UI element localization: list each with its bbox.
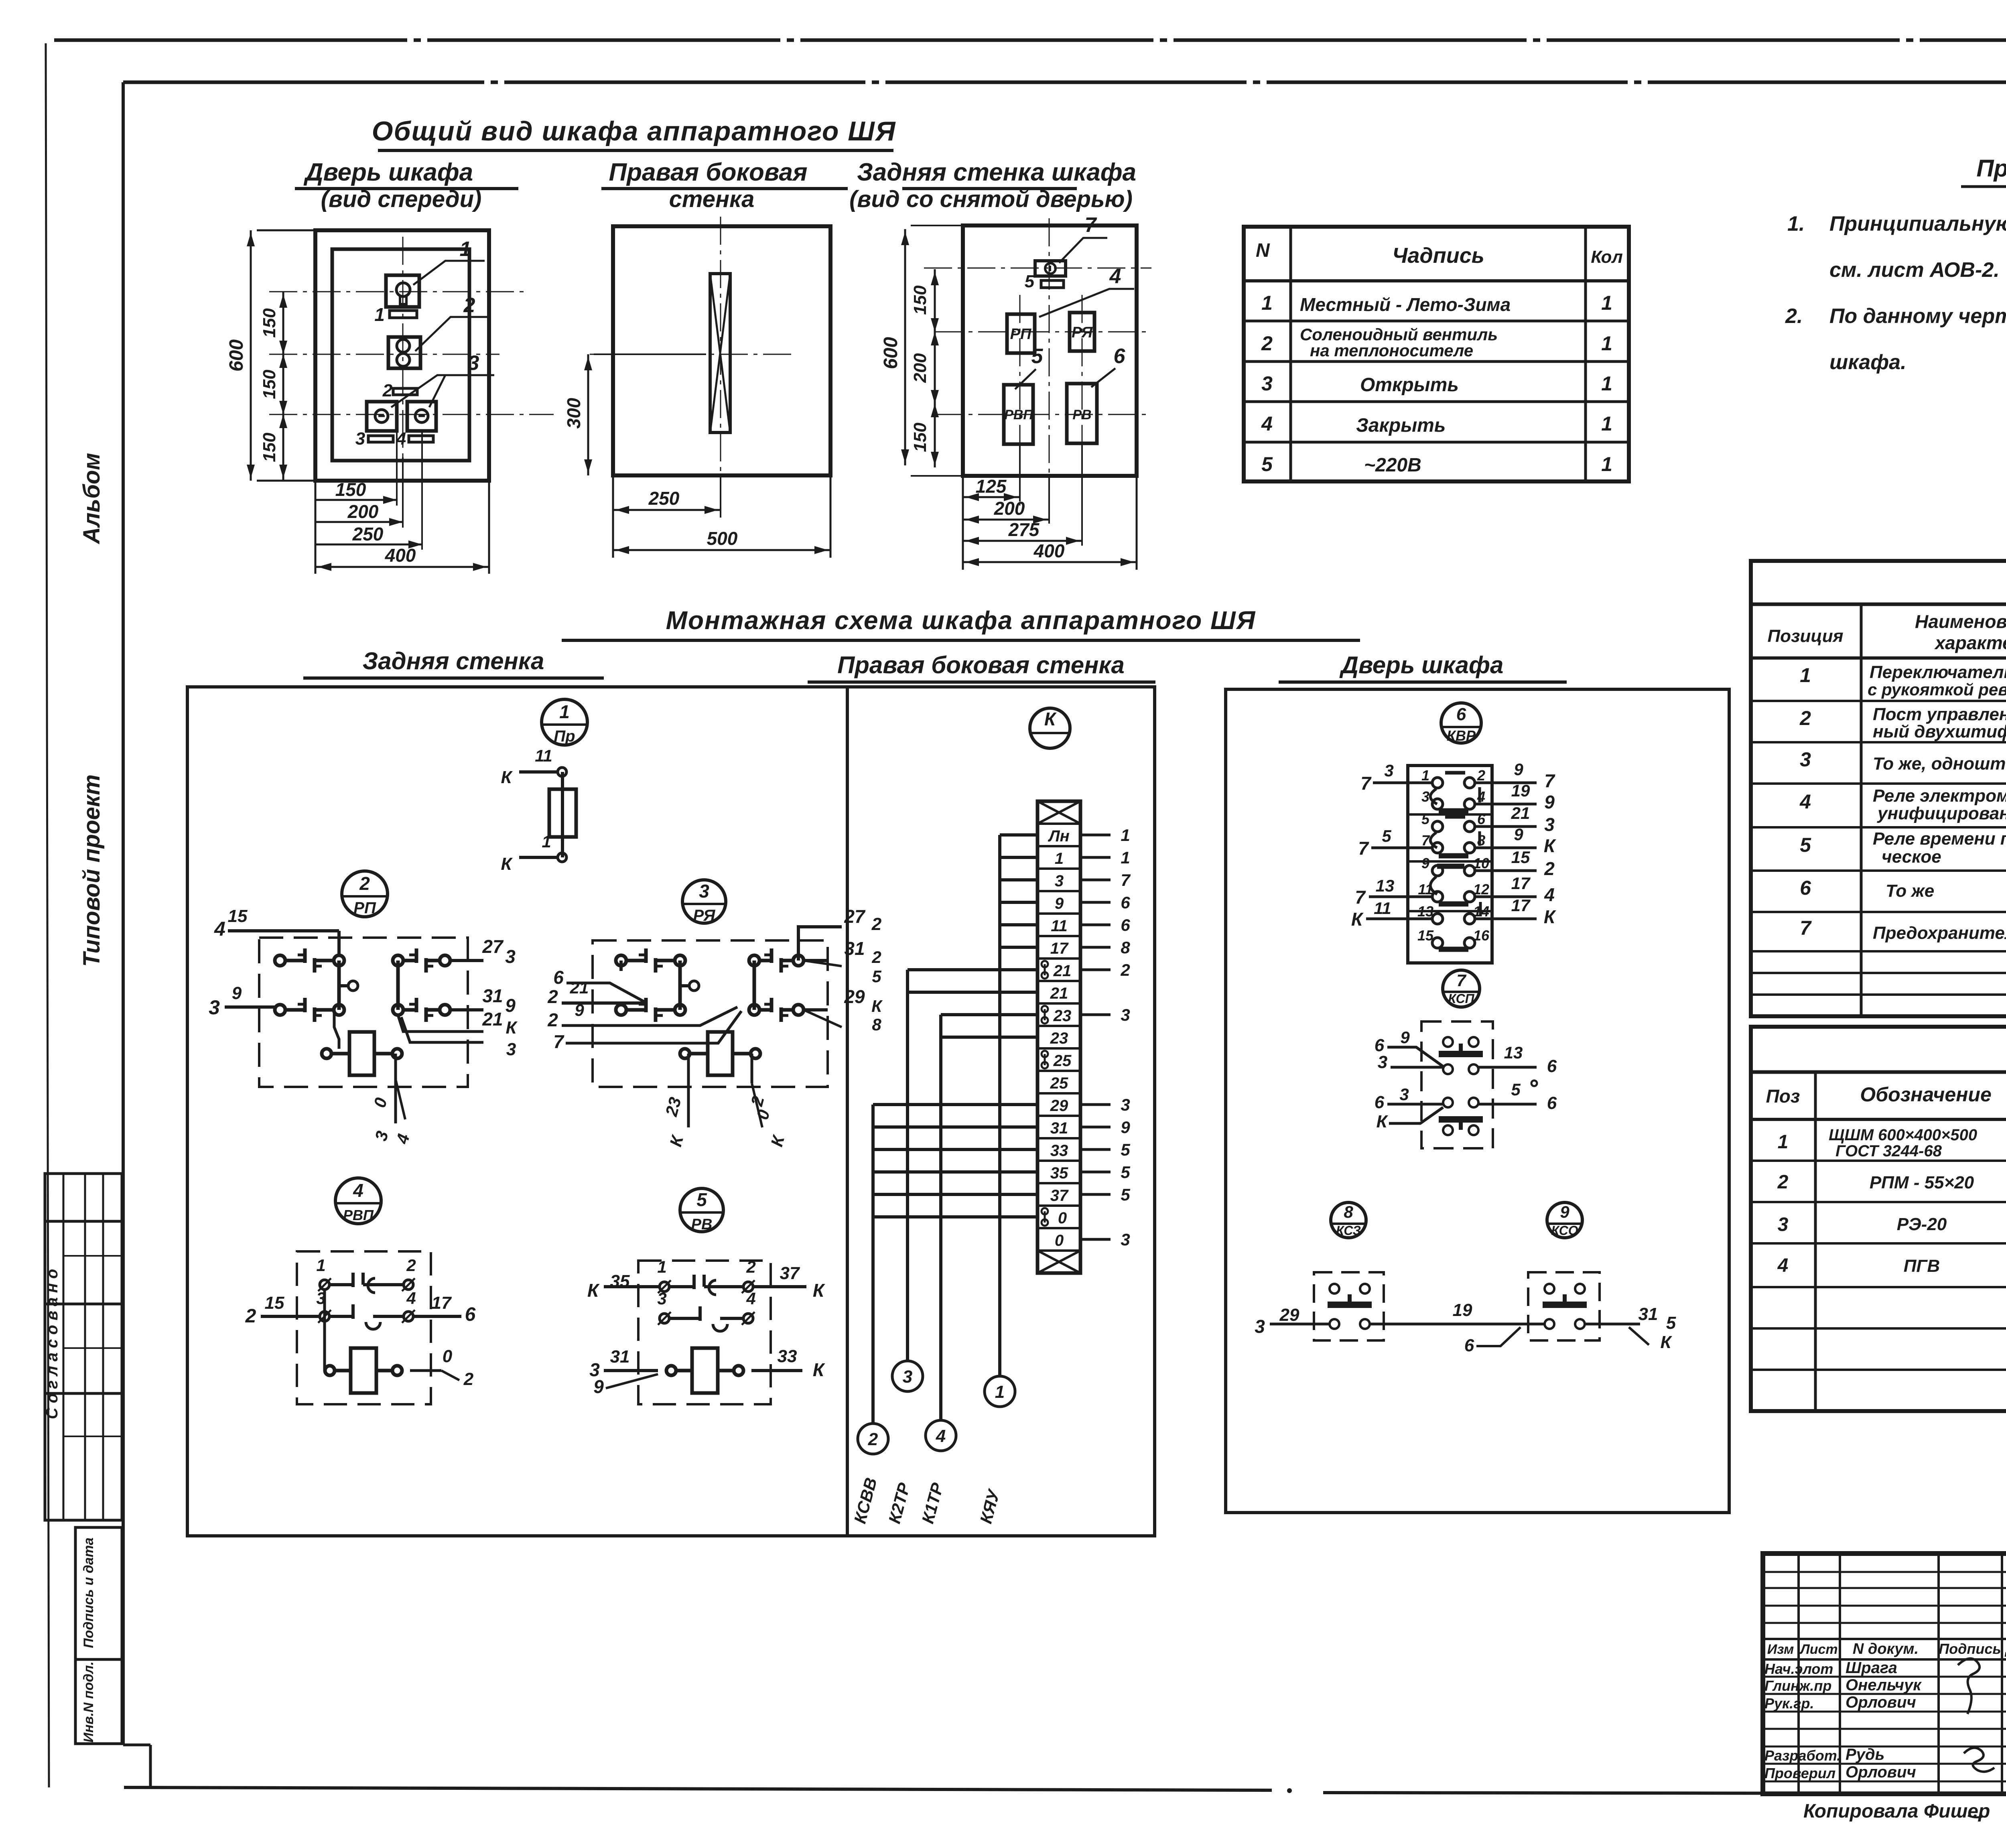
svg-text:9: 9 — [505, 995, 516, 1016]
svg-text:35: 35 — [1050, 1164, 1068, 1182]
svg-text:КСО: КСО — [1551, 1223, 1578, 1238]
button КСП unit B — [1439, 1098, 1483, 1135]
svg-text:1: 1 — [559, 701, 570, 722]
svg-text:характеристика: характеристика — [1934, 632, 2006, 653]
position circle 4 РВП — [335, 1178, 381, 1224]
svg-text:1: 1 — [1261, 292, 1273, 314]
montage box door — [1226, 689, 1729, 1513]
svg-text:6: 6 — [1114, 345, 1126, 368]
svg-text:1: 1 — [1121, 848, 1130, 867]
specification table Спецификация — [1751, 1027, 2006, 1411]
position circle 5 РВ — [680, 1188, 723, 1233]
montage title Монтажная схема шкафа аппаратного ША — [562, 606, 1360, 640]
svg-text:4: 4 — [1261, 412, 1273, 435]
svg-text:6: 6 — [1456, 705, 1466, 724]
svg-text:РВ: РВ — [691, 1216, 713, 1233]
svg-text:4: 4 — [746, 1289, 755, 1308]
svg-text:21: 21 — [1050, 985, 1068, 1002]
svg-text:5: 5 — [1121, 1163, 1130, 1182]
svg-text:РВП: РВП — [1004, 407, 1033, 422]
svg-text:3: 3 — [355, 429, 365, 449]
svg-text:Правая боковая стенка: Правая боковая стенка — [837, 652, 1125, 678]
svg-text:2.: 2. — [1785, 305, 1803, 328]
svg-text:8: 8 — [1121, 938, 1130, 957]
subtitle Дверь шкафа (вид спереди) — [295, 158, 518, 212]
time relay РВ coil — [666, 1348, 743, 1393]
svg-text:2: 2 — [463, 1369, 474, 1389]
svg-text:Принципиальную схему авт: Принципиальную схему автоматизации — [1829, 212, 2006, 236]
time relay РВ contact 1-2 — [657, 1257, 755, 1295]
svg-text:4: 4 — [1544, 884, 1555, 905]
position circle 7 КСП — [1443, 970, 1480, 1007]
left margin label Типовой проект — [79, 774, 105, 967]
svg-text:К: К — [1544, 906, 1556, 927]
svg-text:Монтажная схема шкафа: Монтажная схема шкафа аппаратного ШЯ — [666, 606, 1256, 635]
relay РП enclosure dashed — [259, 938, 468, 1087]
montage subtitle Правая боковая стенка — [808, 652, 1155, 682]
svg-text:1: 1 — [374, 304, 385, 325]
КВР external wires left — [1351, 761, 1433, 930]
svg-text:6: 6 — [1800, 877, 1811, 899]
svg-text:7: 7 — [1421, 832, 1430, 849]
svg-text:Рук.гр.: Рук.гр. — [1764, 1695, 1814, 1712]
terminal strip К right stubs — [1080, 826, 1131, 1249]
montage subtitle Задняя стенка — [303, 648, 604, 678]
svg-text:Дверь шкафа: Дверь шкафа — [1339, 652, 1504, 678]
svg-text:2: 2 — [1544, 858, 1555, 879]
svg-text:250: 250 — [648, 488, 680, 509]
svg-text:3: 3 — [1384, 761, 1393, 780]
svg-text:400: 400 — [385, 545, 416, 566]
svg-text:125: 125 — [976, 476, 1007, 497]
fuse Пр leads — [501, 746, 566, 874]
svg-text:5: 5 — [1800, 834, 1811, 856]
left margin label Альбом — [79, 453, 105, 545]
svg-text:1: 1 — [316, 1256, 325, 1275]
wire РП output 21-К and 3 — [398, 1009, 518, 1059]
svg-text:9: 9 — [593, 1376, 604, 1397]
side view dimension 300 — [563, 354, 706, 475]
КВР external wires right — [1475, 760, 1556, 927]
svg-text:23: 23 — [1053, 1007, 1072, 1025]
back view wall outline — [963, 225, 1137, 476]
svg-text:275: 275 — [1008, 519, 1040, 540]
wire РП coil left link — [334, 1007, 339, 1049]
svg-text:5: 5 — [1261, 453, 1273, 475]
svg-text:3: 3 — [1255, 1316, 1265, 1337]
svg-text:16: 16 — [1473, 927, 1490, 944]
note 2 — [1785, 305, 2006, 374]
svg-text:3: 3 — [1544, 814, 1555, 835]
wire РЯ coil output 2 0 К — [747, 1054, 788, 1149]
relay РП coil — [322, 1032, 402, 1075]
svg-text:1.: 1. — [1787, 212, 1805, 236]
wire РВ coil output 33-К — [751, 1346, 825, 1380]
svg-text:6: 6 — [465, 1304, 476, 1325]
back view dimension 600 — [880, 225, 965, 476]
svg-text:29: 29 — [844, 986, 865, 1007]
wire РВ coil feed 3-31 9 — [589, 1347, 658, 1397]
svg-text:11: 11 — [1051, 917, 1068, 935]
svg-text:19: 19 — [1453, 1300, 1472, 1320]
svg-text:29: 29 — [1279, 1305, 1299, 1325]
svg-text:К: К — [871, 997, 883, 1015]
wire РЯ output 31-2-5 — [804, 938, 881, 986]
svg-text:25: 25 — [1050, 1074, 1068, 1092]
svg-text:1: 1 — [995, 1382, 1005, 1402]
buttons КСП enclosure dashed — [1421, 1021, 1493, 1148]
svg-text:1: 1 — [1778, 1131, 1789, 1153]
svg-text:9: 9 — [232, 983, 242, 1003]
svg-text:5: 5 — [1421, 811, 1430, 827]
svg-text:5: 5 — [1666, 1313, 1676, 1333]
relay РП contact group B — [393, 948, 450, 1022]
svg-text:0: 0 — [1055, 1232, 1064, 1249]
svg-text:К: К — [1044, 709, 1057, 729]
svg-text:12: 12 — [1473, 881, 1489, 898]
left margin stamp Согласовано — [43, 1174, 122, 1520]
time relay РВ contact 3-4 — [657, 1289, 755, 1331]
svg-text:400: 400 — [1033, 540, 1065, 561]
wire РВ feed К-35 and out 37-К — [587, 1263, 825, 1301]
svg-text:С о г л а с о в а н о: С о г л а с о в а н о — [43, 1269, 61, 1420]
svg-text:15: 15 — [265, 1293, 284, 1313]
svg-text:2: 2 — [359, 873, 370, 894]
front view centerlines — [269, 237, 554, 457]
subtitle Правая боковая стенка — [601, 158, 848, 212]
svg-text:Альбом: Альбом — [79, 453, 105, 545]
svg-text:2: 2 — [1777, 1172, 1789, 1193]
note 1 — [1787, 212, 2006, 282]
svg-text:27: 27 — [844, 906, 866, 927]
svg-text:13: 13 — [1376, 876, 1395, 895]
left margin box Подпись и дата — [75, 1527, 122, 1659]
svg-text:К: К — [1660, 1332, 1672, 1352]
svg-text:3: 3 — [468, 351, 479, 375]
svg-text:КСП: КСП — [1448, 991, 1474, 1006]
svg-text:(вид спереди): (вид спереди) — [321, 186, 482, 212]
svg-text:600: 600 — [226, 339, 247, 372]
front view dimension 600 — [226, 230, 317, 481]
svg-text:Глинж.пр: Глинж.пр — [1764, 1677, 1831, 1694]
wire РП output 27-3 — [450, 936, 516, 967]
time relay РВП contact 1-2 — [316, 1256, 416, 1293]
cam switch КВР contacts — [1417, 767, 1490, 949]
svg-text:31: 31 — [482, 985, 503, 1006]
svg-text:Кол: Кол — [1591, 247, 1623, 267]
svg-text:3: 3 — [505, 946, 516, 967]
svg-text:8: 8 — [1344, 1202, 1353, 1221]
svg-text:3: 3 — [657, 1289, 666, 1308]
svg-text:Общий вид шкафа аппара: Общий вид шкафа аппаратного ШЯ — [372, 116, 896, 146]
svg-text:6: 6 — [1121, 893, 1130, 912]
svg-text:150: 150 — [260, 433, 279, 462]
svg-text:ЩШМ 600×400×500: ЩШМ 600×400×500 — [1829, 1126, 1977, 1144]
back view relay РВП — [1004, 385, 1033, 444]
svg-text:То же: То же — [1886, 881, 1934, 901]
leader to position 5 — [1015, 345, 1044, 389]
svg-text:2: 2 — [871, 914, 882, 934]
terminal strip К — [1038, 801, 1080, 1273]
svg-text:унифицированное: унифицированное — [1877, 804, 2006, 823]
svg-text:10: 10 — [1473, 855, 1489, 871]
svg-text:4: 4 — [406, 1289, 416, 1308]
svg-text:17: 17 — [1511, 896, 1531, 915]
svg-text:7: 7 — [1358, 838, 1369, 859]
svg-text:Примечание: Примечание — [1976, 155, 2006, 182]
front view label frame 1 — [374, 304, 417, 325]
position circle 8 КСЗ — [1331, 1202, 1366, 1238]
back view bottom dimensions — [963, 444, 1137, 570]
side view centerlines — [590, 217, 796, 485]
svg-text:2: 2 — [1261, 332, 1273, 355]
left margin box Инв.N подл — [75, 1659, 122, 1744]
front view button 2 ПКЕ — [388, 337, 420, 368]
back view centerlines — [924, 218, 1151, 542]
cam switch КВР body — [1408, 766, 1492, 963]
labels table Надпись-Кол — [1244, 227, 1629, 481]
svg-text:1: 1 — [1055, 850, 1064, 867]
svg-text:1: 1 — [657, 1257, 666, 1276]
relay РЯ contact group A — [616, 948, 699, 1022]
svg-text:21: 21 — [1053, 962, 1072, 980]
svg-text:К: К — [1376, 1112, 1388, 1131]
relay РЯ contact group B — [749, 948, 804, 1022]
wire РЯ coil output 23 К — [662, 1054, 688, 1149]
svg-text:2: 2 — [1120, 961, 1130, 979]
back view relay РВ — [1067, 384, 1097, 443]
montage subtitle Дверь шкафа — [1279, 652, 1567, 682]
svg-text:Инв.N подл.: Инв.N подл. — [81, 1661, 96, 1742]
svg-text:3: 3 — [1055, 872, 1064, 890]
svg-text:0: 0 — [443, 1346, 453, 1366]
leader to position 6 — [1091, 345, 1126, 387]
front view door outline — [315, 230, 489, 481]
svg-text:6: 6 — [1547, 1056, 1557, 1076]
cable КСВВ wires 29-0 — [850, 1105, 1038, 1525]
svg-text:9: 9 — [1421, 855, 1429, 871]
svg-text:21: 21 — [482, 1009, 503, 1030]
svg-text:РВ: РВ — [1072, 407, 1091, 422]
svg-text:К: К — [506, 1018, 518, 1038]
notes title Примечание — [1961, 155, 2006, 187]
svg-text:РВП: РВП — [343, 1207, 374, 1223]
svg-text:4: 4 — [353, 1180, 363, 1201]
svg-text:РЭ-20: РЭ-20 — [1897, 1214, 1947, 1234]
svg-text:Переключатель кулачковый: Переключатель кулачковый — [1870, 662, 2006, 682]
svg-text:Пр: Пр — [554, 727, 575, 745]
svg-text:Задняя стенка шкафа: Задняя стенка шкафа — [857, 158, 1136, 186]
button КСЗ contacts — [1328, 1284, 1372, 1329]
svg-text:К: К — [587, 1280, 600, 1301]
svg-text:37: 37 — [1050, 1187, 1069, 1204]
svg-text:N докум.: N докум. — [1853, 1641, 1919, 1657]
svg-text:Правая боковая: Правая боковая — [609, 158, 808, 186]
svg-text:N: N — [1256, 240, 1270, 261]
svg-text:21: 21 — [570, 978, 589, 997]
svg-text:6: 6 — [1464, 1336, 1474, 1355]
svg-text:200: 200 — [347, 501, 379, 522]
position circle К — [1030, 708, 1070, 748]
svg-text:шкафа.: шкафа. — [1829, 351, 1907, 374]
wire РЯ output 27-2 top — [798, 906, 882, 961]
svg-text:5: 5 — [1382, 827, 1391, 845]
wire РВП coil output 0-2 — [410, 1346, 474, 1389]
position circle 3 РЯ — [682, 880, 726, 924]
svg-text:25: 25 — [1053, 1052, 1072, 1070]
svg-text:Задняя стенка: Задняя стенка — [363, 648, 544, 674]
svg-text:9: 9 — [1055, 895, 1064, 912]
svg-text:3: 3 — [209, 996, 220, 1019]
КСП wires unit B — [1375, 1080, 1557, 1131]
svg-text:Орлович: Орлович — [1846, 1694, 1916, 1711]
svg-text:7: 7 — [1544, 770, 1555, 791]
relay РЯ enclosure dashed — [593, 940, 828, 1087]
svg-text:3: 3 — [903, 1367, 912, 1387]
svg-text:11: 11 — [1374, 899, 1391, 918]
wire РЯ output 29-К and 8 — [804, 986, 883, 1034]
svg-text:5: 5 — [1121, 1140, 1130, 1159]
svg-text:9: 9 — [1560, 1202, 1569, 1221]
svg-text:19: 19 — [1511, 781, 1530, 800]
svg-text:см. лист АОВ-2.: см. лист АОВ-2. — [1829, 258, 2000, 282]
svg-text:3: 3 — [1399, 1085, 1409, 1104]
svg-text:Проверил: Проверил — [1764, 1765, 1835, 1781]
side view wall outline — [613, 226, 830, 475]
svg-text:6: 6 — [1375, 1093, 1385, 1112]
svg-text:РЯ: РЯ — [693, 907, 716, 924]
svg-text:ПГВ: ПГВ — [1904, 1256, 1940, 1276]
svg-text:17: 17 — [1511, 874, 1531, 893]
svg-text:31: 31 — [1050, 1119, 1068, 1137]
front view dimension chain 150x3 — [260, 292, 287, 481]
svg-text:6: 6 — [553, 967, 564, 988]
sheet outer border left line — [46, 43, 49, 1787]
svg-text:5: 5 — [1031, 345, 1044, 368]
back view fuse 7 — [1025, 261, 1066, 291]
wire РП feed 9 — [209, 983, 275, 1019]
svg-text:2: 2 — [463, 294, 475, 317]
svg-text:1: 1 — [1601, 412, 1612, 435]
svg-text:К: К — [813, 1280, 825, 1301]
leader to position 4 — [1039, 265, 1134, 317]
leader to position 7 — [1059, 213, 1107, 263]
svg-text:Местный - Лето-Зима: Местный - Лето-Зима — [1300, 294, 1511, 315]
svg-text:5: 5 — [1025, 272, 1035, 291]
svg-text:6: 6 — [1477, 811, 1486, 827]
svg-text:2: 2 — [1799, 707, 1811, 729]
front view label frame 2 — [382, 381, 417, 400]
leader to position 1 — [413, 238, 485, 285]
КСП wires unit A — [1375, 1028, 1557, 1086]
front view bottom dimensions — [315, 431, 489, 574]
svg-text:23: 23 — [1050, 1030, 1068, 1047]
svg-text:К: К — [1351, 909, 1364, 930]
svg-text:5: 5 — [1121, 1185, 1130, 1204]
back view dimension chain 150 200 150 — [910, 269, 939, 467]
wire РП coil output 0 3 4 — [370, 1054, 413, 1146]
cable К1ТР wires 23 — [918, 1015, 1038, 1525]
svg-text:29: 29 — [1050, 1097, 1068, 1115]
svg-text:33: 33 — [1050, 1142, 1068, 1160]
svg-text:Дверь шкафа: Дверь шкафа — [303, 158, 473, 186]
svg-text:9: 9 — [575, 1001, 584, 1019]
svg-text:5: 5 — [872, 967, 881, 986]
time relay РВП contact 3-4 — [316, 1289, 416, 1329]
svg-text:8: 8 — [872, 1015, 881, 1034]
svg-text:200: 200 — [994, 498, 1025, 519]
svg-text:РПМ - 55×20: РПМ - 55×20 — [1870, 1173, 1974, 1192]
time relay РВП enclosure dashed — [297, 1251, 431, 1404]
svg-text:7: 7 — [1800, 917, 1812, 939]
svg-text:Лн: Лн — [1048, 827, 1070, 845]
svg-text:1: 1 — [1601, 332, 1612, 355]
svg-text:600: 600 — [880, 337, 901, 369]
svg-text:РП: РП — [353, 899, 376, 917]
svg-text:Открыть: Открыть — [1360, 374, 1459, 396]
svg-text:Пост управления кнопоч-: Пост управления кнопоч- — [1873, 705, 2006, 724]
svg-text:Реле времени пневмати-: Реле времени пневмати- — [1873, 829, 2006, 849]
svg-text:4: 4 — [936, 1426, 946, 1446]
cable КЯУ wires Лн-17 — [976, 835, 1038, 1525]
svg-text:Нач.элот: Нач.элот — [1764, 1661, 1833, 1677]
svg-text:7: 7 — [1456, 971, 1466, 990]
wire РВП feed 2-15 — [245, 1293, 319, 1327]
svg-text:РЯ: РЯ — [1072, 324, 1093, 341]
wire РВП output 17-6 — [414, 1293, 476, 1325]
back view relay РЯ — [1070, 313, 1094, 351]
sheet outer border top line — [54, 39, 2006, 42]
svg-text:1: 1 — [460, 238, 471, 261]
position circle 9 КСО — [1547, 1202, 1582, 1238]
cable К2ТР wires 21 — [885, 970, 1038, 1525]
svg-text:7: 7 — [553, 1031, 564, 1052]
svg-text:Шрага: Шрага — [1846, 1659, 1897, 1677]
svg-text:3: 3 — [1261, 372, 1273, 395]
relay РЯ coil — [680, 1032, 760, 1075]
svg-text:Разработ.: Разработ. — [1764, 1747, 1841, 1764]
svg-text:9: 9 — [1514, 760, 1523, 779]
svg-text:2: 2 — [406, 1256, 416, 1275]
svg-text:на теплоносителе: на теплоносителе — [1310, 341, 1473, 360]
svg-text:6: 6 — [1121, 916, 1130, 934]
svg-text:2: 2 — [547, 1009, 558, 1030]
svg-text:300: 300 — [563, 398, 584, 428]
svg-text:2: 2 — [1477, 767, 1485, 784]
svg-text:9: 9 — [1544, 792, 1555, 812]
svg-text:Предохранитель: Предохранитель — [1873, 923, 2006, 943]
side view bottom dimensions — [613, 475, 830, 558]
svg-text:1: 1 — [1601, 453, 1612, 475]
svg-text:1: 1 — [1121, 826, 1130, 845]
svg-text:31: 31 — [1639, 1304, 1658, 1324]
svg-text:15: 15 — [1417, 927, 1434, 944]
wire 31 5 К out of КСО — [1585, 1304, 1676, 1352]
svg-text:5: 5 — [696, 1189, 707, 1210]
svg-text:31: 31 — [610, 1347, 630, 1367]
svg-text:0: 0 — [1058, 1209, 1067, 1227]
svg-text:7: 7 — [1121, 871, 1131, 889]
position circle 6 КВР — [1441, 703, 1481, 744]
svg-text:Реле электромагнитное: Реле электромагнитное — [1873, 786, 2006, 806]
svg-text:Онельчук: Онельчук — [1846, 1676, 1922, 1694]
svg-text:стенка: стенка — [669, 186, 755, 212]
button КСП unit A — [1439, 1037, 1483, 1074]
svg-text:Рудь: Рудь — [1846, 1746, 1884, 1763]
svg-text:3: 3 — [1121, 1095, 1130, 1114]
svg-text:1: 1 — [1601, 372, 1612, 395]
svg-text:Копировала Фишер: Копировала Фишер — [1803, 1801, 1990, 1822]
